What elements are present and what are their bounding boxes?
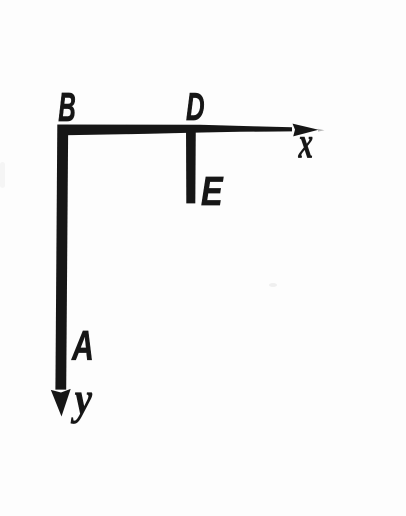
- arrow tip fade: [318, 129, 325, 132]
- svg-text:x: x: [298, 120, 313, 168]
- wire: x-axis bar B to D and thin continuation: [58, 125, 293, 136]
- svg-text:B: B: [58, 86, 76, 131]
- y-axis arrowhead: [51, 389, 71, 417]
- faint speck: [269, 283, 277, 287]
- x-axis arrowhead: [293, 124, 319, 137]
- svg-text:D: D: [186, 86, 205, 130]
- svg-text:E: E: [201, 169, 224, 214]
- wire: segment D to E: [186, 127, 196, 204]
- wire: y-axis bar B to A: [55, 125, 68, 390]
- faint scan smudge at left edge: [0, 162, 5, 188]
- svg-text:A: A: [71, 322, 94, 369]
